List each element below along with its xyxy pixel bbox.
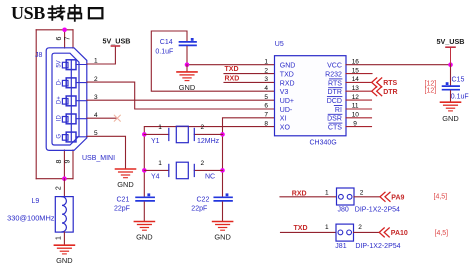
wire usb pin4 ID stub xyxy=(87,117,117,119)
wire CTS stub xyxy=(346,126,372,128)
wire DTR stub xyxy=(346,90,372,92)
wire shield to L9 xyxy=(63,179,65,197)
wire 5V stem xyxy=(450,47,452,64)
svg-text:[4,5]: [4,5] xyxy=(435,230,449,237)
svg-text:330@100MHz: 330@100MHz xyxy=(7,214,55,223)
svg-text:3: 3 xyxy=(264,76,268,83)
svg-text:9: 9 xyxy=(65,159,72,163)
svg-text:5V_USB: 5V_USB xyxy=(437,37,465,46)
svg-text:2: 2 xyxy=(201,124,205,131)
wire RXD to J80 xyxy=(280,196,337,198)
svg-text:1: 1 xyxy=(56,236,63,240)
svg-text:NC: NC xyxy=(205,174,215,181)
svg-text:DTR: DTR xyxy=(383,89,397,96)
svg-text:R232: R232 xyxy=(325,72,342,79)
svg-text:2: 2 xyxy=(56,186,63,190)
wire pin9 drop xyxy=(72,150,74,179)
wire C22 to gnd xyxy=(222,202,224,221)
svg-text:G: G xyxy=(56,134,62,139)
wire usb pin2 D- xyxy=(87,82,275,109)
wire V3 loop to C14 xyxy=(151,31,274,91)
svg-text:CH340G: CH340G xyxy=(310,140,337,147)
svg-text:2: 2 xyxy=(264,67,268,74)
char zhuan xyxy=(48,6,56,20)
svg-text:GND: GND xyxy=(179,83,195,92)
svg-text:D-: D- xyxy=(56,79,62,85)
svg-text:Y4: Y4 xyxy=(151,174,160,181)
wire bottom loop horizontal xyxy=(36,178,73,180)
svg-text:7: 7 xyxy=(264,112,268,119)
svg-text:[12]: [12] xyxy=(425,80,437,87)
wire junction to gnd xyxy=(186,65,188,72)
svg-text:C21: C21 xyxy=(117,196,130,203)
wire C14 bottom to U5 pin1 xyxy=(187,47,275,65)
capacitor C21 xyxy=(136,197,154,201)
U5 right pin numbers xyxy=(352,58,360,127)
jumper J80 xyxy=(337,188,355,205)
svg-text:22pF: 22pF xyxy=(191,205,207,212)
ground under C14 xyxy=(177,72,197,81)
svg-text:2: 2 xyxy=(201,160,205,167)
svg-text:1: 1 xyxy=(264,58,268,65)
wire pin7 drop xyxy=(72,30,74,48)
capacitor C14 xyxy=(180,42,197,46)
wire RXD to U5 pin3 xyxy=(224,81,275,83)
svg-text:TXD: TXD xyxy=(225,66,239,73)
power bar 5V_USB left xyxy=(111,45,119,47)
wire Y1 pin2 xyxy=(194,133,222,135)
svg-text:VCC: VCC xyxy=(327,63,342,70)
wire J80 to PA9 xyxy=(354,196,380,198)
svg-text:U5: U5 xyxy=(275,41,284,48)
svg-text:DTR: DTR xyxy=(328,89,342,96)
ground under C15 xyxy=(441,102,461,111)
svg-text:1: 1 xyxy=(325,190,329,197)
svg-text:V3: V3 xyxy=(280,89,289,96)
wire DCD stub xyxy=(346,99,372,101)
svg-text:J80: J80 xyxy=(338,207,349,214)
wire DSR stub xyxy=(346,117,372,119)
svg-text:GND: GND xyxy=(117,180,133,189)
wire C15 to gnd xyxy=(450,91,452,102)
svg-text:4: 4 xyxy=(264,85,268,92)
svg-text:DIP-1X2-2P54: DIP-1X2-2P54 xyxy=(355,243,400,250)
svg-text:TXD: TXD xyxy=(280,72,294,79)
svg-text:UD-: UD- xyxy=(280,107,293,114)
junction 5V C15 xyxy=(448,62,453,67)
no connect X xyxy=(114,115,120,121)
svg-text:1: 1 xyxy=(158,160,162,167)
svg-text:2: 2 xyxy=(360,190,364,197)
svg-text:8: 8 xyxy=(264,120,268,127)
svg-text:5: 5 xyxy=(264,94,268,101)
ground under C22 xyxy=(213,222,233,231)
svg-text:J8: J8 xyxy=(35,52,43,59)
svg-text:1: 1 xyxy=(325,224,329,231)
wire top loop horizontal xyxy=(36,29,73,31)
svg-text:22pF: 22pF xyxy=(114,205,130,212)
capacitor C15 xyxy=(443,86,460,90)
svg-text:D+: D+ xyxy=(56,96,62,104)
svg-text:CTS: CTS xyxy=(328,125,342,132)
svg-text:RI: RI xyxy=(335,107,342,114)
wire RI stub xyxy=(346,108,372,110)
svg-text:6: 6 xyxy=(264,103,268,110)
svg-text:ID: ID xyxy=(56,115,62,122)
IC U5 CH340G xyxy=(275,56,347,136)
overlines active-low pins xyxy=(327,79,342,123)
svg-text:6: 6 xyxy=(56,36,63,40)
crystal Y4 xyxy=(169,162,195,179)
offpage arrow RTS xyxy=(372,78,382,87)
wire pin6 drop xyxy=(64,30,66,48)
U5 left pin labels xyxy=(280,63,296,132)
ground under usb pin5 xyxy=(116,169,136,178)
power bar 5V_USB right xyxy=(446,46,455,48)
svg-text:UD+: UD+ xyxy=(280,98,294,105)
svg-text:2: 2 xyxy=(358,224,362,231)
svg-text:USB: USB xyxy=(11,3,45,23)
svg-text:RXD: RXD xyxy=(225,75,240,82)
U5 left pin numbers xyxy=(264,58,268,127)
svg-text:TXD: TXD xyxy=(294,225,308,232)
char kou xyxy=(89,8,103,18)
svg-text:GND: GND xyxy=(56,256,72,265)
offpage arrow PA10 xyxy=(379,228,389,237)
wire TXD to J81 xyxy=(281,231,337,233)
svg-text:7: 7 xyxy=(65,36,72,40)
char chuan xyxy=(68,5,81,21)
junction Y1 left xyxy=(142,132,147,137)
wire L9 to gnd xyxy=(63,232,65,245)
svg-text:5V: 5V xyxy=(56,60,62,67)
wire XO to crystal xyxy=(144,127,274,197)
wire R232 stub xyxy=(346,73,372,75)
svg-text:J81: J81 xyxy=(335,243,346,250)
svg-text:C15: C15 xyxy=(452,76,465,83)
svg-text:PA9: PA9 xyxy=(391,195,404,202)
wire junction to C15 xyxy=(450,65,452,86)
svg-text:RTS: RTS xyxy=(383,80,397,87)
svg-text:Y1: Y1 xyxy=(151,138,160,145)
capacitor C22 xyxy=(214,197,232,201)
svg-text:12MHz: 12MHz xyxy=(197,138,220,145)
junction top shield xyxy=(62,28,67,33)
wire Y4 pin1 xyxy=(144,169,169,171)
wire XI to crystal xyxy=(223,118,275,197)
junction Y4 right xyxy=(220,168,225,173)
svg-text:RXD: RXD xyxy=(280,80,295,87)
connector J8 USB_MINI xyxy=(46,48,87,151)
svg-text:DSR: DSR xyxy=(327,116,342,123)
wire usb pin3 D+ xyxy=(87,99,275,101)
svg-text:GND: GND xyxy=(442,114,458,123)
wire VCC to 5V xyxy=(346,64,451,66)
ground under L9 xyxy=(54,245,74,254)
U5 right pin labels xyxy=(325,63,342,132)
offpage arrow DTR xyxy=(372,87,382,96)
svg-text:USB_MINI: USB_MINI xyxy=(82,155,115,162)
inductor L9 xyxy=(55,197,73,233)
svg-text:XI: XI xyxy=(280,116,287,123)
wire J81 to PA10 xyxy=(354,231,380,233)
svg-text:1: 1 xyxy=(158,124,162,131)
wire Y1 pin1 xyxy=(144,133,169,135)
svg-text:0.1uF: 0.1uF xyxy=(451,94,469,101)
jumper J81 xyxy=(336,224,354,241)
wire left loop vertical xyxy=(35,30,37,179)
svg-text:C14: C14 xyxy=(160,39,173,46)
svg-text:DIP-1X2-2P54: DIP-1X2-2P54 xyxy=(355,207,400,214)
svg-text:GND: GND xyxy=(136,232,152,241)
svg-text:GND: GND xyxy=(214,232,230,241)
svg-text:GND: GND xyxy=(280,63,296,70)
svg-text:PA10: PA10 xyxy=(391,230,408,237)
junction Y1 right xyxy=(220,132,225,137)
svg-text:XO: XO xyxy=(280,125,291,132)
junction C14 gnd xyxy=(185,62,190,67)
svg-text:RTS: RTS xyxy=(328,80,342,87)
wire TXD to U5 pin2 xyxy=(224,73,275,75)
wire Y4 pin2 xyxy=(194,169,222,171)
offpage arrow PA9 xyxy=(380,192,390,201)
wire C21 to gnd xyxy=(143,202,145,221)
wire pin8 drop xyxy=(63,150,65,179)
svg-text:C22: C22 xyxy=(197,196,210,203)
title USB to serial xyxy=(11,3,102,23)
wire usb pin1 to 5V xyxy=(87,46,115,64)
ground under C21 xyxy=(134,222,154,231)
svg-text:DCD: DCD xyxy=(327,98,342,105)
svg-text:5V_USB: 5V_USB xyxy=(103,37,131,46)
svg-text:[12]: [12] xyxy=(425,88,437,95)
svg-text:8: 8 xyxy=(56,159,63,163)
junction bottom shield xyxy=(62,176,67,181)
junction Y4 left xyxy=(142,168,147,173)
svg-text:[4,5]: [4,5] xyxy=(434,193,448,200)
wire RTS stub xyxy=(346,81,372,83)
svg-text:L9: L9 xyxy=(32,198,40,205)
pin boxes 1-5 xyxy=(62,60,87,142)
wire usb pin5 G to gnd xyxy=(87,136,126,169)
svg-text:0.1uF: 0.1uF xyxy=(155,48,173,55)
crystal Y1 xyxy=(169,126,195,143)
